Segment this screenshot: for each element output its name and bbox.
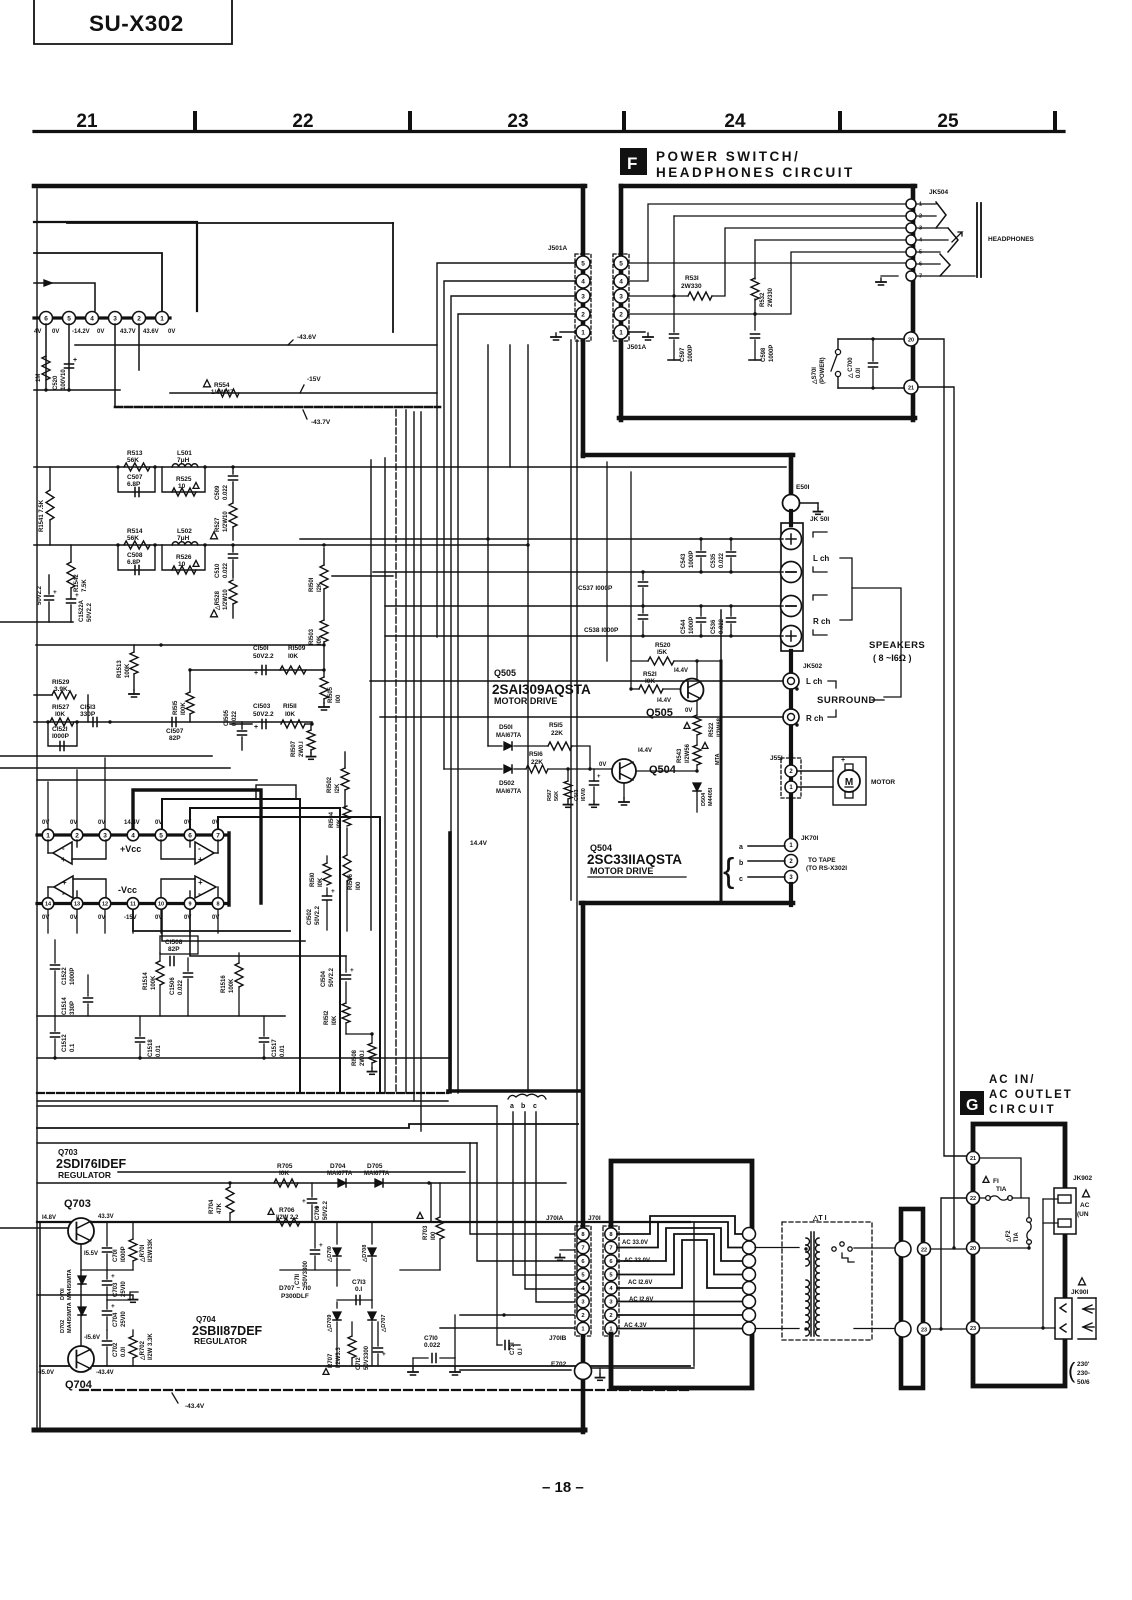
svg-text:RI5I5: RI5I5 [173, 700, 179, 715]
svg-text:5: 5 [67, 315, 71, 322]
svg-text:R705: R705 [277, 1163, 293, 1170]
svg-text:-: - [62, 889, 65, 898]
svg-text:50V2.2: 50V2.2 [37, 585, 43, 605]
svg-text:JK502: JK502 [803, 663, 823, 670]
svg-text:3: 3 [919, 226, 922, 232]
svg-text:AC 4.3V: AC 4.3V [624, 1323, 647, 1329]
svg-text:50V2.2: 50V2.2 [253, 653, 274, 660]
svg-text:F: F [627, 154, 637, 173]
svg-text:R1542: R1542 [74, 574, 80, 592]
svg-text:C520: C520 [53, 375, 59, 390]
svg-text:I000P: I000P [52, 733, 70, 740]
svg-text:△S70I: △S70I [811, 367, 818, 385]
svg-text:1000P: 1000P [688, 345, 694, 362]
svg-text:R52I: R52I [643, 671, 657, 678]
svg-text:MAI67TA: MAI67TA [496, 789, 522, 795]
svg-text:3: 3 [103, 832, 107, 839]
svg-text:0V: 0V [168, 329, 175, 335]
svg-text:2: 2 [619, 311, 623, 318]
svg-text:{: { [723, 852, 734, 890]
svg-text:8: 8 [216, 901, 219, 907]
svg-text:0V: 0V [599, 762, 606, 768]
svg-text:4: 4 [581, 278, 585, 285]
svg-text:3: 3 [113, 315, 117, 322]
svg-text:AC IN/: AC IN/ [989, 1074, 1036, 1086]
svg-text:4: 4 [131, 832, 135, 839]
svg-text:L ch: L ch [806, 677, 822, 686]
svg-text:I/2W68: I/2W68 [717, 717, 723, 737]
svg-text:Q504: Q504 [649, 764, 677, 776]
svg-text:14.4V: 14.4V [124, 820, 140, 826]
svg-text:R1513: R1513 [117, 660, 123, 678]
svg-text:HEADPHONES: HEADPHONES [988, 236, 1035, 243]
svg-text:23: 23 [507, 111, 528, 132]
svg-text:I/2W56: I/2W56 [685, 743, 691, 763]
svg-text:43.7V: 43.7V [120, 329, 136, 335]
svg-text:0V: 0V [70, 915, 77, 921]
svg-text:R514: R514 [127, 528, 143, 535]
svg-text:330P: 330P [70, 1001, 76, 1015]
svg-text:C510: C510 [215, 563, 221, 578]
svg-text:0V: 0V [97, 329, 104, 335]
svg-text:MOTOR DRIVE: MOTOR DRIVE [494, 696, 557, 706]
svg-text:-: - [62, 844, 65, 853]
svg-text:Q704: Q704 [196, 1315, 216, 1324]
svg-text:I4.4V: I4.4V [657, 698, 671, 704]
svg-text:C703: C703 [113, 1282, 119, 1297]
svg-text:MOTOR DRIVE: MOTOR DRIVE [590, 866, 653, 876]
svg-text:b: b [739, 860, 743, 867]
svg-text:1000P: 1000P [689, 551, 695, 568]
svg-text:Q703: Q703 [64, 1198, 91, 1210]
svg-text:I2K: I2K [317, 582, 323, 592]
svg-text:12: 12 [102, 901, 108, 907]
svg-text:R707: R707 [328, 1353, 334, 1368]
svg-text:C509: C509 [215, 485, 221, 500]
svg-text:82P: 82P [168, 946, 180, 953]
svg-text:+: + [302, 1198, 306, 1205]
svg-text:C597: C597 [680, 347, 686, 362]
svg-text:I4.4V: I4.4V [674, 668, 688, 674]
svg-text:5: 5 [619, 260, 623, 267]
svg-text:D704: D704 [330, 1163, 346, 1170]
svg-text:CI5I3: CI5I3 [80, 704, 96, 711]
svg-text:R532: R532 [760, 292, 766, 307]
svg-text:2: 2 [609, 1313, 612, 1319]
svg-text:AC 33.0V: AC 33.0V [624, 1258, 650, 1264]
svg-text:R543: R543 [677, 748, 683, 763]
svg-text:50V2.2: 50V2.2 [253, 711, 274, 718]
svg-text:CI508: CI508 [165, 939, 183, 946]
svg-text:2: 2 [919, 214, 922, 220]
svg-text:I/2W33K: I/2W33K [148, 1238, 154, 1262]
svg-text:D705: D705 [367, 1163, 383, 1170]
svg-text:C7I2: C7I2 [356, 1357, 362, 1370]
svg-text:I4.8V: I4.8V [42, 1215, 56, 1221]
svg-text:CI505: CI505 [224, 709, 230, 726]
svg-text:23: 23 [921, 1328, 927, 1334]
svg-text:21: 21 [76, 111, 98, 132]
svg-text:2SC33IIAQSTA: 2SC33IIAQSTA [587, 852, 682, 867]
svg-text:+: + [382, 1351, 386, 1358]
svg-text:C7II: C7II [295, 1274, 301, 1285]
svg-text:22: 22 [970, 1196, 976, 1202]
svg-text:6: 6 [919, 262, 922, 268]
svg-text:D502: D502 [499, 780, 515, 787]
svg-text:0.022: 0.022 [424, 1342, 441, 1349]
svg-text:-: - [198, 889, 201, 898]
svg-text:D707 ~ 7I0: D707 ~ 7I0 [279, 1285, 311, 1292]
svg-text:47K: 47K [217, 1202, 223, 1214]
svg-text:I0K: I0K [317, 635, 323, 645]
svg-text:R525: R525 [176, 476, 192, 483]
svg-text:+: + [254, 724, 258, 731]
svg-text:2: 2 [581, 1313, 584, 1319]
svg-text:1: 1 [619, 329, 623, 336]
svg-text:△R70I: △R70I [139, 1244, 146, 1263]
svg-text:FI: FI [993, 1178, 999, 1185]
svg-text:+: + [198, 855, 203, 864]
svg-text:20: 20 [970, 1246, 976, 1252]
svg-text:0.022: 0.022 [719, 552, 725, 568]
svg-text:56K: 56K [127, 535, 139, 542]
svg-text:100V10: 100V10 [61, 369, 67, 390]
svg-text:D504: D504 [701, 792, 707, 806]
svg-text:I6VI0: I6VI0 [581, 788, 587, 801]
svg-text:22: 22 [292, 111, 313, 132]
svg-text:0V: 0V [70, 820, 77, 826]
svg-text:C508: C508 [127, 552, 143, 559]
svg-text:13: 13 [74, 901, 80, 907]
svg-text:I00: I00 [336, 694, 342, 703]
svg-text:-15V: -15V [307, 376, 321, 383]
svg-text:0.01: 0.01 [156, 1045, 162, 1057]
svg-text:-I5.0V: -I5.0V [38, 1370, 54, 1376]
svg-text:+: + [62, 878, 67, 887]
svg-text:R527: R527 [215, 517, 221, 532]
svg-text:C704: C704 [113, 1312, 119, 1327]
svg-text:C598: C598 [761, 347, 767, 362]
svg-text:TO TAPE: TO TAPE [808, 857, 836, 864]
svg-text:J70IA: J70IA [546, 1215, 564, 1222]
svg-text:R5I6: R5I6 [529, 751, 543, 758]
svg-text:R5I5: R5I5 [549, 722, 563, 729]
svg-text:5: 5 [581, 260, 585, 267]
svg-text:AC OUTLET: AC OUTLET [989, 1089, 1073, 1101]
svg-text:HEADPHONES CIRCUIT: HEADPHONES CIRCUIT [656, 165, 855, 180]
svg-text:C1518: C1518 [148, 1039, 154, 1057]
svg-text:4: 4 [619, 278, 623, 285]
svg-text:CI503: CI503 [253, 703, 271, 710]
svg-text:+: + [111, 1273, 115, 1280]
svg-text:I5.5V: I5.5V [84, 1251, 98, 1257]
svg-text:b: b [521, 1103, 525, 1110]
svg-text:C1512: C1512 [62, 1034, 68, 1052]
svg-text:a: a [510, 1103, 514, 1110]
svg-text:50V2.2: 50V2.2 [87, 602, 93, 622]
svg-text:R703: R703 [423, 1225, 429, 1240]
svg-text:C73I: C73I [510, 1342, 516, 1355]
svg-text:D702: D702 [60, 1320, 66, 1333]
svg-text:+: + [315, 1205, 319, 1212]
svg-text:C1517: C1517 [272, 1039, 278, 1057]
svg-text:7μH: 7μH [177, 457, 190, 464]
svg-text:24: 24 [724, 111, 746, 132]
svg-text:C1522: C1522 [62, 967, 68, 985]
svg-text:J55I: J55I [770, 755, 783, 762]
svg-text:CI504: CI504 [321, 970, 327, 987]
svg-text:+: + [319, 1242, 323, 1249]
svg-text:TIA: TIA [996, 1186, 1007, 1193]
svg-text:J501A: J501A [627, 344, 646, 351]
svg-text:R513: R513 [127, 450, 143, 457]
svg-text:RI50I: RI50I [309, 577, 315, 592]
svg-text:C544: C544 [681, 619, 687, 634]
svg-text:Q505: Q505 [494, 668, 516, 678]
svg-text:21: 21 [908, 386, 914, 392]
svg-text:R520: R520 [655, 642, 671, 649]
svg-text:5: 5 [159, 832, 163, 839]
svg-text:0.I: 0.I [355, 1286, 362, 1293]
svg-text:RI5I2: RI5I2 [324, 1010, 330, 1025]
svg-text:0.022: 0.022 [719, 618, 725, 634]
svg-text:50/6: 50/6 [1077, 1379, 1090, 1386]
svg-text:2W330: 2W330 [681, 283, 702, 290]
svg-text:6: 6 [188, 832, 192, 839]
svg-text:0.I: 0.I [518, 1348, 524, 1355]
svg-text:MAI67TA: MAI67TA [496, 733, 522, 739]
svg-text:20: 20 [908, 338, 914, 344]
svg-text:△D708: △D708 [361, 1245, 368, 1263]
svg-text:82P: 82P [169, 735, 181, 742]
svg-text:50V2.2: 50V2.2 [323, 1200, 329, 1220]
svg-text:RI506: RI506 [348, 873, 354, 890]
svg-text:+: + [350, 967, 354, 974]
svg-text:2: 2 [581, 311, 585, 318]
svg-text:Q704: Q704 [65, 1379, 93, 1391]
svg-text:+: + [331, 888, 335, 895]
svg-text:-43.6V: -43.6V [297, 334, 317, 341]
svg-text:( 8 ~I6Ω ): ( 8 ~I6Ω ) [873, 653, 911, 663]
svg-text:REGULATOR: REGULATOR [58, 1170, 111, 1180]
svg-text:50V2.2: 50V2.2 [315, 905, 321, 925]
svg-text:R522: R522 [709, 722, 715, 737]
svg-text:10: 10 [158, 901, 164, 907]
svg-text:JK70I: JK70I [801, 835, 819, 842]
svg-text:+: + [841, 757, 845, 764]
svg-text:25VI0: 25VI0 [121, 1311, 127, 1327]
svg-text:C1506: C1506 [170, 977, 176, 995]
svg-text:(POWER): (POWER) [820, 357, 826, 384]
svg-text:RI5II: RI5II [283, 703, 297, 710]
svg-text:100K: 100K [125, 663, 131, 678]
svg-text:I0K: I0K [332, 1015, 338, 1025]
svg-text:3: 3 [581, 293, 585, 300]
svg-text:J70IB: J70IB [549, 1335, 567, 1342]
svg-text:JK 50I: JK 50I [810, 516, 829, 523]
svg-text:C7I3: C7I3 [352, 1279, 366, 1286]
svg-text:2SAI309AQSTA: 2SAI309AQSTA [492, 682, 591, 697]
svg-text:1/2W10: 1/2W10 [223, 589, 229, 610]
svg-text:△T I: △T I [812, 1215, 827, 1222]
svg-text:I4.4V: I4.4V [638, 748, 652, 754]
svg-text:C5I3: C5I3 [574, 789, 580, 801]
svg-text:1: 1 [919, 202, 922, 208]
svg-text:4V: 4V [34, 329, 41, 335]
svg-text:0.022: 0.022 [178, 979, 184, 995]
svg-text:MTA: MTA [715, 753, 721, 765]
svg-text:+: + [198, 878, 203, 887]
svg-text:0.1: 0.1 [70, 1043, 76, 1052]
svg-text:1M: 1M [36, 374, 42, 382]
svg-text:RI509: RI509 [288, 645, 306, 652]
svg-text:6: 6 [44, 315, 48, 322]
svg-text:7: 7 [581, 1246, 584, 1252]
svg-text:50V2.2: 50V2.2 [329, 967, 335, 987]
svg-text:+: + [53, 589, 57, 596]
svg-text:R704: R704 [209, 1199, 215, 1214]
svg-text:5: 5 [919, 250, 922, 256]
svg-text:0.022: 0.022 [223, 484, 229, 500]
svg-text:0.022: 0.022 [223, 562, 229, 578]
svg-text:CI502: CI502 [307, 908, 313, 925]
svg-text:L ch: L ch [813, 554, 829, 563]
svg-text:J70I: J70I [588, 1215, 601, 1222]
svg-text:R1541 7.5K: R1541 7.5K [39, 499, 45, 532]
svg-text:14.4V: 14.4V [470, 840, 488, 847]
svg-text:RI5I0: RI5I0 [310, 872, 316, 887]
svg-text:△R528: △R528 [214, 590, 221, 611]
svg-text:0V: 0V [98, 915, 105, 921]
svg-text:1000P: 1000P [689, 617, 695, 634]
svg-text:△D7I0: △D7I0 [326, 1246, 333, 1263]
svg-text:100K: 100K [229, 978, 235, 993]
svg-text:△F2: △F2 [1005, 1230, 1012, 1243]
svg-text:1000P: 1000P [70, 968, 76, 985]
svg-text:I00: I00 [431, 1231, 437, 1240]
svg-text:a: a [739, 844, 743, 851]
svg-text:7μH: 7μH [177, 535, 190, 542]
svg-text:RI507: RI507 [291, 740, 297, 757]
svg-text:22K: 22K [531, 759, 543, 766]
svg-text:MA4I50MTA: MA4I50MTA [67, 1269, 73, 1300]
svg-text:JK504: JK504 [929, 189, 949, 196]
svg-text:POWER SWITCH/: POWER SWITCH/ [656, 149, 800, 164]
svg-text:G: G [966, 1097, 978, 1114]
svg-text:C1522A: C1522A [79, 599, 85, 622]
svg-text:– 18 –: – 18 – [542, 1479, 584, 1496]
svg-text:+: + [61, 855, 66, 864]
svg-text:MAI67TA: MAI67TA [364, 1171, 390, 1177]
svg-text:MAI67TA: MAI67TA [327, 1171, 353, 1177]
svg-text:MA4I50MTA: MA4I50MTA [67, 1302, 73, 1333]
svg-text:R ch: R ch [813, 617, 830, 626]
svg-text:7: 7 [216, 832, 220, 839]
svg-text:I000P: I000P [121, 1246, 127, 1262]
svg-text:C537 I000P: C537 I000P [578, 585, 613, 592]
svg-text:R ch: R ch [806, 714, 823, 723]
svg-text:JK902: JK902 [1073, 1175, 1093, 1182]
svg-text:C535: C535 [711, 553, 717, 568]
svg-text:C543: C543 [681, 553, 687, 568]
svg-text:R1516: R1516 [221, 975, 227, 993]
svg-text:7.5K: 7.5K [82, 579, 88, 592]
svg-text:TIA: TIA [1014, 1232, 1020, 1242]
svg-text:14: 14 [45, 901, 52, 907]
svg-text:1/4W 47: 1/4W 47 [211, 390, 234, 396]
svg-text:-: - [198, 844, 201, 853]
svg-text:R706: R706 [279, 1207, 295, 1214]
svg-text:△R702: △R702 [139, 1340, 146, 1361]
svg-text:SU-X302: SU-X302 [89, 11, 184, 36]
svg-text:-43.4V: -43.4V [96, 1370, 114, 1376]
svg-text:c: c [739, 876, 743, 883]
svg-text:E702: E702 [551, 1361, 567, 1368]
svg-text:1000P: 1000P [769, 345, 775, 362]
svg-text:-43.7V: -43.7V [311, 419, 331, 426]
svg-text:22: 22 [921, 1248, 927, 1254]
svg-text:I00K: I00K [181, 702, 187, 715]
svg-text:-43.4V: -43.4V [185, 1403, 205, 1410]
svg-text:CI507: CI507 [166, 728, 184, 735]
svg-text:+Vcc: +Vcc [120, 844, 141, 854]
svg-text:P300DLF: P300DLF [281, 1293, 309, 1300]
svg-text:RI529: RI529 [52, 679, 70, 686]
svg-text:25VI0: 25VI0 [121, 1281, 127, 1297]
svg-text:△ C700: △ C700 [847, 357, 854, 379]
svg-text:23: 23 [970, 1326, 976, 1332]
svg-text:0.0I: 0.0I [856, 368, 862, 378]
svg-text:230-: 230- [1077, 1370, 1090, 1377]
svg-text:0V: 0V [98, 820, 105, 826]
svg-text:RI503: RI503 [309, 628, 315, 645]
svg-text:C1514: C1514 [62, 997, 68, 1015]
svg-text:I/2W3.3: I/2W3.3 [336, 1347, 342, 1368]
svg-text:△D707: △D707 [380, 1315, 387, 1333]
svg-text:M4405I: M4405I [708, 787, 714, 806]
svg-text:100K: 100K [151, 975, 157, 990]
svg-text:R554: R554 [214, 382, 230, 389]
svg-text:C702: C702 [113, 1342, 119, 1357]
svg-text:21: 21 [970, 1156, 976, 1162]
svg-text:2W330: 2W330 [768, 287, 774, 307]
svg-text:AC I2.6V: AC I2.6V [628, 1280, 652, 1286]
svg-text:R53I: R53I [685, 275, 699, 282]
svg-text:50V3300: 50V3300 [303, 1260, 309, 1285]
svg-text:C536: C536 [711, 619, 717, 634]
svg-text:2W0.I: 2W0.I [299, 741, 305, 757]
svg-text:D70I: D70I [60, 1288, 66, 1300]
svg-text:(: ( [1068, 1358, 1076, 1383]
svg-text:RI504: RI504 [329, 811, 335, 828]
svg-text:9: 9 [188, 901, 191, 907]
svg-text:RI527: RI527 [52, 704, 70, 711]
svg-text:43.3V: 43.3V [98, 1214, 114, 1220]
svg-text:0V: 0V [685, 708, 692, 714]
svg-text:+: + [73, 357, 77, 364]
svg-text:L501: L501 [177, 450, 192, 457]
svg-text:I5K: I5K [657, 649, 667, 656]
svg-text:Q703: Q703 [58, 1148, 78, 1157]
svg-text:56K: 56K [554, 791, 560, 801]
svg-text:2: 2 [75, 832, 79, 839]
svg-text:0.01: 0.01 [280, 1045, 286, 1057]
svg-text:D50I: D50I [499, 724, 513, 731]
svg-text:E50I: E50I [796, 484, 810, 491]
svg-text:56K: 56K [127, 457, 139, 464]
svg-text:22K: 22K [551, 730, 563, 737]
svg-text:R526: R526 [176, 554, 192, 561]
